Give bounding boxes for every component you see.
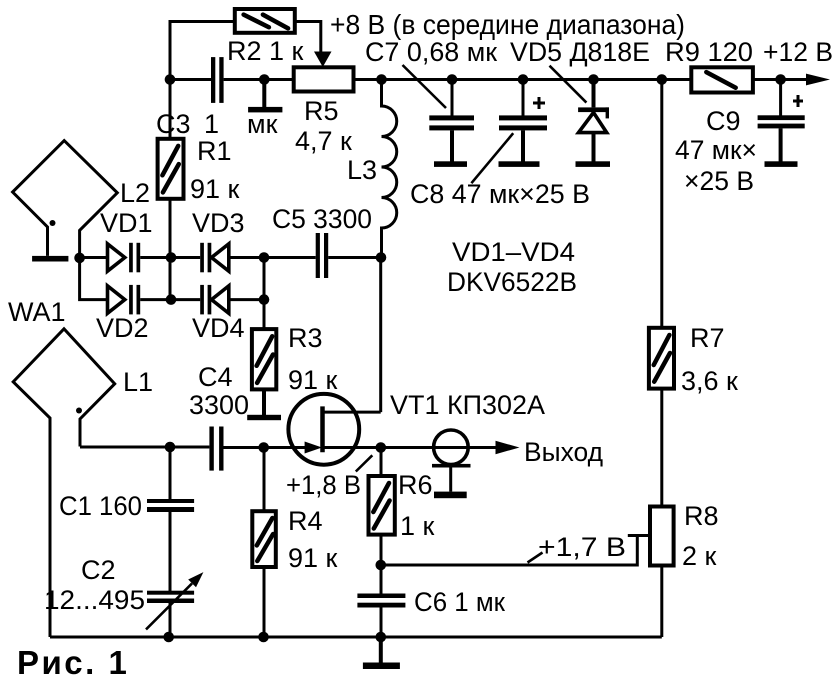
antenna L1 — [13, 329, 115, 637]
wire R7 to R8 — [660, 389, 663, 507]
inductor L3 — [382, 84, 397, 258]
capacitor C3 — [211, 57, 224, 103]
resistor R9 — [691, 67, 753, 92]
wire R4 bottom lead — [263, 567, 266, 637]
svg-text:С5 3300: С5 3300 — [272, 204, 372, 234]
wire R4 top lead — [263, 448, 266, 512]
svg-text:1 к: 1 к — [400, 511, 435, 541]
svg-text:91 к: 91 к — [190, 174, 240, 204]
node C7 junction — [447, 74, 458, 85]
svg-text:3300: 3300 — [189, 390, 249, 420]
svg-text:VT1 КП302А: VT1 КП302А — [390, 390, 545, 420]
node row2 junction R1 — [166, 294, 177, 305]
wire R9 to +12V arrow — [753, 78, 810, 81]
node R3 top junction — [259, 294, 270, 305]
node C6 rail junction — [376, 632, 387, 643]
svg-text:С2: С2 — [81, 555, 116, 585]
wire rows vertical R1 — [169, 258, 172, 300]
node C1 junction — [165, 442, 176, 453]
capacitor C5 — [316, 233, 329, 278]
resistor R3 — [252, 329, 276, 389]
varicap VD2 — [108, 285, 141, 315]
svg-text:R7: R7 — [690, 323, 725, 353]
svg-text:L2: L2 — [120, 178, 150, 208]
svg-text:×25 В: ×25 В — [684, 166, 754, 196]
node source junction — [376, 442, 387, 453]
svg-text:+8 В (в середине диапазона): +8 В (в середине диапазона) — [330, 9, 685, 40]
svg-text:R2 1 к: R2 1 к — [227, 36, 304, 66]
svg-text:+1,7 В: +1,7 В — [538, 532, 626, 562]
svg-text:4,7 к: 4,7 к — [295, 126, 352, 156]
resistor R4 — [252, 511, 275, 567]
wire bottom rail — [50, 636, 662, 639]
wire R5 right to node C — [354, 78, 382, 81]
label VD1-VD4 type — [447, 237, 577, 297]
node VD5 junction — [588, 74, 599, 85]
node R4 rail junction — [258, 632, 269, 643]
varicap VD1 — [108, 243, 141, 272]
capacitor C8 — [499, 80, 547, 162]
wire drain up to tank — [379, 258, 382, 413]
capacitor C1 — [147, 447, 194, 592]
R5 wiper arrow — [314, 52, 332, 68]
svg-text:C9: C9 — [706, 106, 741, 136]
svg-text:мк: мк — [247, 109, 278, 139]
svg-text:2 к: 2 к — [682, 541, 717, 571]
capacitor C7 — [429, 80, 474, 162]
wire R3 top lead — [263, 300, 266, 330]
wire C5 node down to R3 node — [263, 258, 266, 300]
wire VD3 to C5 — [229, 256, 316, 259]
wire VD2 to VD4 — [140, 298, 200, 301]
svg-text:С3: С3 — [156, 109, 191, 139]
svg-text:VD1–VD4: VD1–VD4 — [452, 237, 575, 267]
node R6 bottom junction — [376, 560, 387, 571]
wire node A to C3 — [170, 78, 211, 81]
svg-text:С1 160: С1 160 — [59, 491, 142, 521]
svg-text:VD2: VD2 — [96, 313, 149, 343]
svg-text:R6: R6 — [398, 470, 433, 500]
resistor R7 — [649, 328, 674, 389]
svg-text:+1,8 В: +1,8 В — [286, 470, 361, 500]
resistor R2 — [235, 9, 295, 33]
ground below R3 — [247, 389, 281, 420]
svg-text:+12 В: +12 В — [763, 37, 833, 67]
pointer line C8 — [471, 133, 513, 183]
wire R8 bottom to rail — [660, 566, 663, 638]
capacitor C6 — [357, 594, 405, 608]
svg-text:47 мк×: 47 мк× — [675, 135, 757, 165]
ground below C8 — [499, 161, 540, 167]
wire L2 leg down to VD2 row — [80, 258, 108, 300]
varicap VD3 — [200, 243, 229, 272]
ground below node B — [248, 80, 282, 113]
capacitor C4 — [209, 427, 223, 471]
pointer line C7 — [403, 65, 447, 108]
svg-text:3,6 к: 3,6 к — [681, 366, 738, 396]
node L2 junction — [74, 253, 85, 264]
svg-text:С8 47 мк×25 В: С8 47 мк×25 В — [410, 179, 590, 209]
wire source to output — [323, 446, 434, 449]
wire +1.7V feedback — [381, 536, 650, 566]
svg-text:R8: R8 — [684, 501, 719, 531]
svg-text:VD3: VD3 — [192, 208, 245, 238]
wire C5 to tank node — [328, 256, 381, 259]
pointer line VD5 — [550, 66, 587, 103]
wire rail to R7 — [660, 80, 663, 328]
wire R6 bottom — [380, 535, 383, 594]
svg-text:С7 0,68 мк: С7 0,68 мк — [365, 37, 497, 67]
svg-text:VD4: VD4 — [192, 313, 245, 343]
ground below rail — [363, 637, 400, 669]
wire C6 to rail — [380, 608, 383, 638]
node B junction (C3/R5/ground) — [259, 74, 270, 85]
svg-text:L1: L1 — [123, 367, 153, 397]
svg-text:VD5 Д818Е: VD5 Д818Е — [510, 37, 650, 67]
wire top supply rail — [382, 78, 692, 81]
svg-text:С6 1 мк: С6 1 мк — [414, 587, 505, 617]
variable capacitor C2 — [146, 572, 203, 637]
svg-text:R4: R4 — [288, 506, 323, 536]
+12V arrowhead — [806, 74, 830, 86]
svg-text:R3: R3 — [288, 323, 323, 353]
svg-text:91 к: 91 к — [288, 543, 338, 573]
node C8 junction — [518, 74, 529, 85]
wire L2 to VD1 — [80, 256, 108, 259]
wire VD4 to R3 node — [229, 298, 264, 301]
svg-text:L3: L3 — [347, 155, 377, 185]
svg-text:C4: C4 — [198, 362, 233, 392]
node C junction (tank top) — [376, 74, 387, 85]
wire C4 to gate — [224, 446, 307, 449]
node R1 bottom junction — [166, 252, 177, 263]
transistor VT1 — [288, 394, 380, 465]
node R7 branch junction — [657, 74, 668, 85]
ground below VD5 — [576, 161, 611, 167]
svg-text:R1: R1 — [197, 136, 232, 166]
node C1 rail junction — [163, 632, 174, 643]
wire R1 top lead — [169, 80, 172, 139]
svg-text:91 к: 91 к — [288, 365, 338, 395]
wire R1 bottom lead — [169, 199, 172, 258]
output connector XW — [432, 430, 497, 498]
wire VD1 to VD3 — [140, 256, 200, 259]
svg-text:DKV6522B: DKV6522B — [447, 267, 577, 297]
svg-text:VD1: VD1 — [100, 208, 153, 238]
antenna L2 — [13, 141, 118, 262]
wire R2 right lead to R5 wiper — [295, 22, 321, 53]
wire L1 to C4 — [80, 446, 209, 449]
node C9 junction — [775, 74, 786, 85]
svg-text:R9 120: R9 120 — [665, 37, 753, 67]
pointer line +1.7V — [528, 553, 543, 563]
wire C3 to R5 left — [224, 78, 294, 81]
ground below C7 — [434, 161, 467, 167]
trimmer R8 — [650, 507, 674, 566]
label C3 value — [156, 109, 278, 139]
svg-text:12...495: 12...495 — [44, 585, 145, 615]
svg-text:R5: R5 — [304, 96, 339, 126]
node A junction — [165, 74, 176, 85]
pointer line +1.8V — [356, 455, 373, 471]
zener diode VD5 — [578, 80, 609, 162]
svg-text:WA1: WA1 — [8, 297, 66, 327]
svg-text:1: 1 — [204, 109, 219, 139]
capacitor C9 — [758, 80, 805, 162]
wire R2 left lead to node A — [170, 22, 235, 80]
node C5 junction — [259, 252, 270, 263]
resistor R1 — [158, 139, 184, 199]
ground below C9 — [765, 161, 798, 167]
wire source to R6 — [380, 448, 383, 477]
node R4 top junction — [258, 442, 269, 453]
varicap VD4 — [200, 285, 229, 315]
potentiometer R5 — [294, 67, 354, 91]
node tank junction — [376, 252, 387, 263]
output arrowhead — [496, 441, 520, 454]
svg-text:Рис. 1: Рис. 1 — [17, 644, 129, 681]
resistor R6 — [369, 476, 395, 535]
svg-text:Выход: Выход — [524, 437, 603, 467]
